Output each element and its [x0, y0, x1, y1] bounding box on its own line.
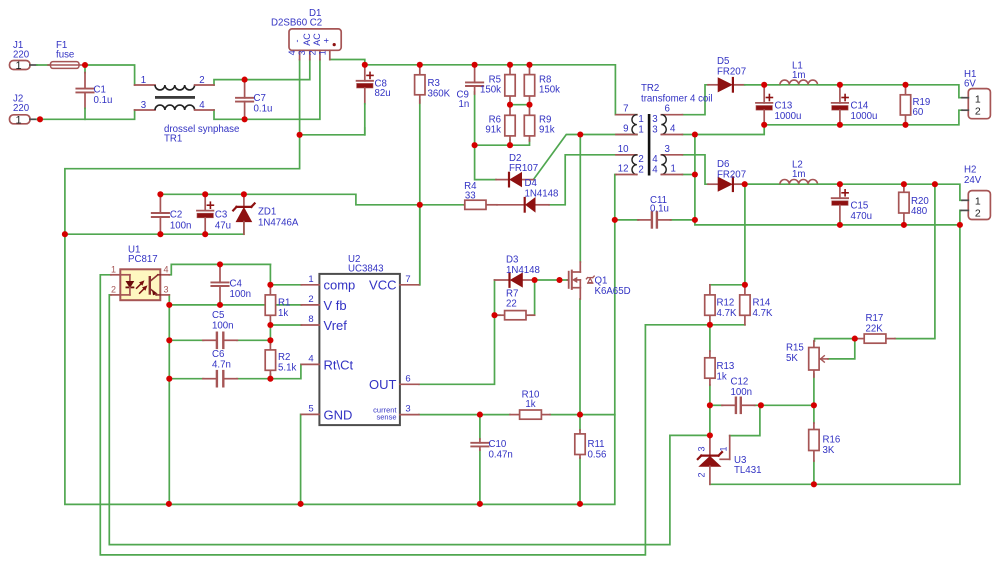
shunt regulator U3 TL431: [709, 435, 711, 455]
resistor R7 22: [498, 314, 505, 316]
resistor R5 150k: [509, 65, 511, 75]
svg-text:5: 5: [308, 403, 313, 414]
svg-text:22K: 22K: [866, 324, 884, 335]
svg-text:R14: R14: [753, 298, 771, 309]
svg-text:2: 2: [307, 50, 317, 55]
svg-text:R3: R3: [428, 78, 440, 89]
svg-text:2: 2: [111, 284, 116, 294]
svg-text:4.7n: 4.7n: [212, 360, 231, 371]
wire opto pin 2 wrap to TL431 cathode: [109, 295, 710, 545]
svg-text:6: 6: [405, 373, 410, 384]
svg-text:1m: 1m: [792, 169, 805, 180]
svg-text:4: 4: [652, 164, 658, 175]
wire R15 top to R17 left node: [815, 339, 855, 341]
capacitor C3 47u: [204, 193, 206, 195]
svg-text:4: 4: [652, 154, 658, 165]
svg-text:3: 3: [405, 404, 410, 415]
svg-text:R11: R11: [588, 439, 605, 450]
svg-text:transfomer 4 coil: transfomer 4 coil: [641, 94, 713, 105]
svg-text:1k: 1k: [278, 308, 288, 319]
capacitor C11 0.1u: [638, 219, 651, 221]
svg-text:fuse: fuse: [56, 50, 74, 61]
svg-text:6V: 6V: [964, 79, 976, 90]
wire R15 bottom to R16 top node: [813, 374, 815, 423]
capacitor C6 4.7n: [203, 378, 216, 380]
svg-text:D5: D5: [717, 56, 729, 67]
svg-text:1: 1: [975, 93, 981, 105]
wire TR2 pin 3 to D6 anode: [682, 155, 708, 184]
inductor L2 1m: [745, 183, 780, 185]
wire J2 to TR1 pin 3: [40, 110, 135, 119]
svg-text:4.7K: 4.7K: [717, 308, 737, 319]
resistor R9 91k: [529, 105, 531, 116]
svg-text:3: 3: [141, 100, 146, 111]
resistor R20 480: [903, 184, 905, 192]
wire C9 R6 R9 bottom row to D2 anode: [475, 92, 496, 180]
capacitor C8 82u: [364, 65, 366, 81]
svg-text:FR207: FR207: [717, 67, 746, 78]
wire C11 row: [615, 219, 639, 221]
svg-text:91k: 91k: [485, 125, 501, 136]
connector J2: [10, 115, 31, 124]
svg-text:C6: C6: [212, 349, 224, 360]
svg-text:C5: C5: [212, 310, 224, 321]
wire R1 R2 column: [269, 325, 271, 344]
svg-text:1: 1: [15, 60, 21, 72]
wire U2 GND pin 5 down to GND rail: [300, 414, 303, 504]
svg-text:4: 4: [163, 264, 168, 274]
svg-text:470u: 470u: [851, 211, 873, 222]
connector H2 24V: [968, 191, 990, 220]
wire C2 C3 ZD1 bottom rail: [65, 223, 244, 235]
resistor R8 150k: [529, 65, 531, 75]
wire R12 R14 top row: [710, 284, 745, 286]
svg-text:ZD1: ZD1: [258, 207, 276, 218]
svg-text:4: 4: [199, 100, 205, 111]
svg-text:9: 9: [623, 124, 628, 135]
svg-text:1000u: 1000u: [775, 111, 802, 122]
svg-text:5.1k: 5.1k: [278, 363, 296, 374]
diode D4 1N4148: [497, 204, 525, 206]
svg-text:C1: C1: [94, 85, 106, 96]
svg-text:0.1u: 0.1u: [254, 104, 273, 115]
svg-text:D3: D3: [506, 255, 518, 266]
svg-text:5K: 5K: [786, 353, 798, 364]
svg-text:10: 10: [618, 144, 629, 155]
svg-text:1k: 1k: [717, 372, 727, 383]
svg-text:33: 33: [465, 191, 476, 202]
svg-text:3K: 3K: [823, 445, 835, 456]
wire feedback riser to bottom wrap to opto pin 1: [100, 275, 645, 555]
resistor R13 1k: [709, 351, 711, 358]
svg-text:100n: 100n: [212, 321, 234, 332]
svg-text:2: 2: [697, 472, 707, 477]
svg-text:comp: comp: [324, 277, 356, 292]
wire C10 column: [479, 415, 481, 439]
svg-text:82u: 82u: [375, 88, 391, 99]
wire TR2 pin 4 to 6V return: [682, 134, 695, 136]
transformer TR1 drossel synphase: [135, 84, 155, 86]
svg-text:V fb: V fb: [324, 298, 347, 313]
resistor R10 1k: [510, 414, 520, 416]
svg-text:1n: 1n: [459, 99, 470, 110]
svg-text:4: 4: [308, 353, 313, 364]
resistor R19 60: [905, 85, 907, 95]
capacitor C13 1000u: [763, 85, 765, 87]
svg-text:C7: C7: [254, 93, 266, 104]
wire Vref row: [270, 324, 301, 326]
wire +HV rail from C8 to TR2 pin 7: [365, 65, 637, 115]
resistor R6 91k: [509, 105, 511, 116]
svg-text:24V: 24V: [964, 175, 982, 186]
resistor R12 4.7K: [709, 285, 711, 295]
wire 6V bottom rail to H1 pin 2: [764, 110, 962, 125]
svg-text:R13: R13: [717, 361, 735, 372]
svg-text:150k: 150k: [539, 85, 560, 96]
svg-text:sense: sense: [376, 413, 396, 422]
svg-text:4: 4: [287, 50, 297, 55]
wire R5 R6 mid junction row: [510, 104, 530, 106]
wire R15 wiper to R17 node: [828, 339, 855, 359]
svg-text:AC: AC: [302, 33, 312, 46]
svg-text:1: 1: [141, 75, 146, 86]
wire TR1 pin 2 to C7 top and D1 AC pin 3: [214, 60, 310, 85]
svg-text:6: 6: [665, 104, 670, 115]
svg-text:3: 3: [652, 125, 657, 136]
capacitor C12 100n: [722, 404, 735, 406]
wire TR1 pin 4 to C7 bottom and D1 AC pin 2: [214, 60, 320, 120]
svg-text:3: 3: [297, 50, 307, 55]
svg-text:OUT: OUT: [369, 377, 397, 392]
resistor R3 360K: [419, 65, 421, 75]
svg-text:C2: C2: [170, 210, 182, 221]
wire R7 left lead: [495, 314, 501, 316]
svg-text:7: 7: [405, 274, 410, 285]
wire TR2 secondary column pin4-pin1-C11: [695, 135, 960, 225]
svg-text:4: 4: [670, 124, 676, 135]
connector J1: [10, 61, 31, 70]
potentiometer R15 5K: [813, 341, 815, 348]
svg-text:UC3843: UC3843: [348, 264, 384, 275]
wire current sense row: [419, 414, 510, 416]
wire R16 bottom to secondary GND: [813, 461, 815, 484]
wire D4 cathode up to TR2 pin 10: [549, 155, 637, 205]
svg-text:R17: R17: [866, 313, 884, 324]
wire Rt Ct node to U2 pin 4: [270, 364, 301, 378]
wire Q1 drain riser to TR2 pin 9: [579, 135, 581, 263]
capacitor C7: [244, 80, 246, 82]
svg-text:R15: R15: [786, 343, 804, 354]
svg-text:100n: 100n: [731, 387, 753, 398]
svg-text:TR1: TR1: [164, 134, 182, 145]
svg-text:360K: 360K: [428, 89, 451, 100]
svg-text:C13: C13: [775, 101, 793, 112]
svg-text:R2: R2: [278, 352, 290, 363]
svg-text:C10: C10: [489, 439, 507, 450]
svg-text:1N4148: 1N4148: [525, 189, 559, 200]
connector H1 6V: [968, 89, 990, 119]
svg-text:D2SB60 C2: D2SB60 C2: [271, 18, 322, 29]
wire TR2 pin 12 down to C11 left: [615, 175, 616, 220]
svg-text:FR207: FR207: [717, 170, 746, 181]
resistor R1 1k: [269, 285, 271, 295]
svg-text:1000u: 1000u: [851, 111, 878, 122]
svg-text:2: 2: [638, 154, 643, 165]
wire C6 row: [169, 378, 203, 380]
svg-text:D4: D4: [525, 178, 538, 189]
svg-text:C4: C4: [230, 279, 243, 290]
svg-text:1k: 1k: [525, 399, 535, 410]
wire D1 plus pin 1 to C8 and +rail: [330, 60, 365, 65]
diode D6 FR207: [708, 183, 718, 185]
svg-text:4.7K: 4.7K: [753, 308, 773, 319]
svg-text:12: 12: [618, 164, 629, 175]
wire U2 VCC riser: [418, 205, 421, 285]
svg-text:VCC: VCC: [369, 277, 396, 292]
svg-text:1N4148: 1N4148: [506, 265, 540, 276]
svg-text:220: 220: [13, 103, 30, 114]
resistor R4 33: [463, 204, 465, 206]
resistor R16 3K: [813, 423, 815, 430]
svg-text:PC817: PC817: [128, 254, 158, 265]
svg-text:2: 2: [638, 164, 643, 175]
svg-text:3: 3: [697, 446, 707, 451]
IC U2 UC3843: [319, 274, 400, 425]
svg-text:0.47n: 0.47n: [489, 450, 513, 461]
svg-text:FR107: FR107: [509, 163, 538, 174]
svg-text:1: 1: [317, 50, 327, 55]
diode D5 FR207: [708, 84, 718, 86]
capacitor C1: [84, 65, 86, 73]
resistor R14 4.7K: [744, 285, 746, 295]
svg-text:1N4746A: 1N4746A: [258, 218, 299, 229]
wire VCC node rail C2 C3 ZD1 to R4 row: [160, 194, 464, 205]
svg-text:0.56: 0.56: [588, 450, 607, 461]
svg-text:K6A65D: K6A65D: [595, 286, 631, 297]
capacitor C5 100n: [203, 339, 216, 341]
wire secondary GND rail up to 24V return: [710, 225, 960, 484]
svg-text:91k: 91k: [539, 125, 555, 136]
wire TL431 ref to C12 right: [730, 405, 761, 435]
wire C12 row to R15 R16 node: [710, 404, 723, 406]
junction dots: [82, 62, 88, 68]
wire 24V rail tap down to R12 R14 divider: [744, 184, 746, 285]
wire V fb row: [169, 304, 301, 306]
svg-text:1: 1: [671, 164, 676, 175]
capacitor C9 1n: [474, 65, 476, 67]
wire C8 bottom node: [300, 128, 365, 135]
svg-text:1: 1: [638, 125, 643, 136]
svg-text:7: 7: [623, 104, 628, 115]
wire D3 R7 right node to Q1 gate: [535, 279, 568, 281]
svg-text:D6: D6: [717, 159, 729, 170]
wire primary GND left column to GND rail: [65, 220, 615, 505]
svg-text:480: 480: [911, 206, 928, 217]
svg-text:3: 3: [163, 284, 168, 294]
wire U2 OUT to gate network: [419, 280, 495, 384]
wire Q1 source down to R10 R11 node: [579, 299, 581, 415]
svg-text:-: -: [292, 40, 302, 43]
svg-text:3: 3: [665, 144, 670, 155]
capacitor C15 470u: [839, 184, 841, 198]
svg-text:0.1u: 0.1u: [94, 95, 113, 106]
svg-text:1m: 1m: [792, 70, 805, 81]
wire R11 column: [579, 415, 581, 430]
svg-text:C14: C14: [851, 101, 869, 112]
svg-text:R16: R16: [823, 435, 841, 446]
svg-text:GND: GND: [324, 407, 353, 422]
wire D1 minus to primary GND left drop: [65, 135, 300, 234]
wire R6 R9 bottom joining row: [475, 140, 510, 146]
wire 24V tap to R17: [895, 184, 935, 338]
wire R12 R14 bottom row to feedback riser: [645, 324, 745, 326]
svg-text:2: 2: [199, 75, 204, 86]
optocoupler U1 PC817: [120, 269, 160, 300]
svg-text:R1: R1: [278, 298, 290, 309]
wire TR2 pin 6 to D5 anode: [682, 85, 708, 115]
svg-text:C3: C3: [215, 210, 227, 221]
svg-text:2: 2: [975, 207, 981, 219]
bridge rectifier D1 D2SB60: [289, 29, 341, 50]
capacitor C2 100n: [159, 194, 161, 197]
wire C5 row: [169, 339, 203, 341]
wire D2 cathode diagonal to Q1 drain node: [533, 135, 637, 180]
wire 24V rail D6 to H2 pin 1: [735, 184, 962, 200]
resistor R11 0.56: [579, 430, 581, 434]
svg-text:Rt\Ct: Rt\Ct: [324, 357, 354, 372]
capacitor C4 100n: [219, 264, 221, 266]
capacitor C10 0.47n: [479, 439, 481, 443]
wire D1 minus pin 4 down to C8 bottom node: [299, 60, 301, 135]
wire C4 top rail from opto pin 4: [169, 264, 270, 274]
svg-text:TR2: TR2: [641, 83, 659, 94]
svg-text:2: 2: [975, 106, 981, 118]
wire AC line from J1/fuse junction to TR1 pin 1: [85, 65, 135, 85]
svg-text:+: +: [322, 38, 332, 43]
zener diode ZD1 1N4746A: [243, 194, 245, 207]
svg-text:3: 3: [652, 114, 657, 125]
diode D3 1N4148: [495, 279, 510, 281]
svg-text:1: 1: [15, 114, 21, 126]
svg-text:1: 1: [111, 264, 116, 274]
resistor R2 5.1k: [269, 340, 271, 350]
svg-text:TL431: TL431: [734, 465, 761, 476]
svg-text:8: 8: [308, 314, 313, 325]
transistor Q1 K6A65D mosfet: [567, 279, 568, 281]
wire 6V return rail to C13 column: [695, 125, 764, 135]
svg-text:150k: 150k: [480, 85, 501, 96]
wire 6V rail D5 to H1 pin 1: [735, 85, 962, 98]
svg-text:Vref: Vref: [324, 318, 348, 333]
svg-text:47u: 47u: [215, 221, 231, 232]
svg-text:220: 220: [13, 50, 30, 61]
svg-text:1: 1: [308, 274, 313, 285]
svg-text:100n: 100n: [230, 289, 252, 300]
wire H2 pin 2 to 24V return rail: [960, 210, 961, 225]
svg-text:C15: C15: [851, 201, 869, 212]
wire opto pin 3 column down to GND rail: [168, 295, 170, 504]
svg-text:1: 1: [638, 114, 643, 125]
svg-text:Q1: Q1: [595, 276, 608, 287]
svg-text:1: 1: [718, 446, 728, 451]
svg-text:100n: 100n: [170, 221, 192, 232]
diode D2 FR107: [496, 179, 509, 181]
inductor L1 1m: [745, 84, 780, 86]
wire R3 column from +rail to R4 row to VCC pin: [419, 100, 421, 285]
svg-text:2: 2: [308, 294, 313, 305]
capacitor C14 1000u: [839, 85, 841, 87]
svg-text:0.1u: 0.1u: [650, 204, 669, 215]
fuse F1: [51, 62, 80, 69]
svg-text:1: 1: [975, 196, 981, 208]
wire TR2 pin 1 to secondary column: [682, 174, 695, 176]
svg-text:22: 22: [506, 299, 517, 310]
svg-text:R12: R12: [717, 298, 735, 309]
svg-text:H2: H2: [964, 165, 976, 176]
svg-text:60: 60: [913, 107, 924, 118]
wire R13 column: [709, 325, 711, 351]
resistor R17 22K: [855, 338, 864, 340]
wire U2 comp node to R1 C4: [270, 284, 301, 286]
